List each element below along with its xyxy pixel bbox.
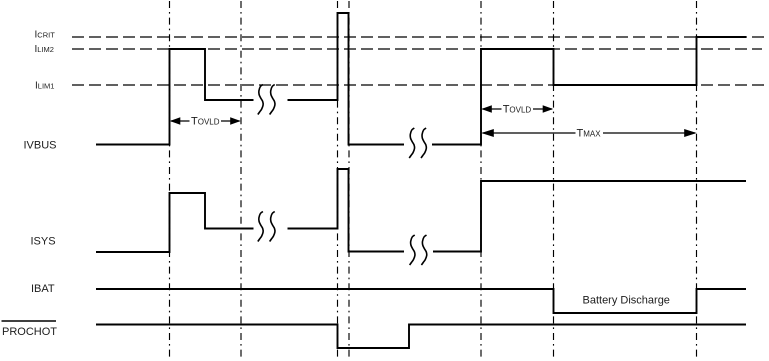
svg-text:TOVLD: TOVLD: [191, 116, 220, 128]
svg-text:IBAT: IBAT: [31, 283, 55, 295]
break squiggle S2 on IVBUS low level: [409, 128, 426, 158]
label PROCHOT with overline: [2, 320, 57, 322]
svg-text:ICRIT: ICRIT: [35, 30, 56, 41]
svg-text:TMAX: TMAX: [577, 128, 602, 140]
waveform PROCHOT: [96, 325, 746, 349]
dimension arrow TOVLD (second, between t5 and t6): [481, 102, 553, 116]
vertical dash-dot timeline t2 (x=241): [240, 1, 242, 360]
break squiggle S4 on ISYS low level: [410, 235, 427, 265]
vertical dash-dot timeline t1 (x=169.5): [169, 1, 171, 360]
waveform IVBUS: [96, 13, 746, 145]
svg-text:Battery Discharge: Battery Discharge: [583, 295, 670, 307]
svg-text:ILIM2: ILIM2: [35, 44, 54, 55]
break squiggle S1 on IVBUS mid level: [258, 85, 275, 115]
svg-text:PROCHOT: PROCHOT: [2, 326, 57, 338]
svg-text:ISYS: ISYS: [31, 236, 56, 248]
vertical dash-dot timeline t5 (x=481): [480, 1, 482, 360]
dashed level line ICRIT (y=37): [72, 36, 765, 38]
break squiggle S3 on ISYS mid level: [258, 212, 275, 242]
waveform ISYS: [96, 169, 746, 252]
dimension arrow TMAX (between t5 and t7): [481, 126, 696, 140]
vertical dash-dot timeline t6 (x=553.5): [553, 1, 555, 360]
svg-text:TOVLD: TOVLD: [503, 104, 532, 116]
dashed level line ILIM1 (y=85): [72, 84, 765, 86]
dashed level line ILIM2 (y=49): [72, 48, 762, 50]
vertical dash-dot timeline t3 (x=337.5): [337, 1, 339, 360]
vertical dash-dot timeline t7 (x=696.5): [696, 1, 698, 360]
dimension arrow TOVLD (first, between t1 and t2): [170, 114, 241, 128]
vertical dash-dot timeline t4 (x=349): [348, 1, 350, 360]
svg-text:ILIM1: ILIM1: [35, 81, 54, 92]
waveform IBAT: [96, 289, 746, 313]
svg-text:IVBUS: IVBUS: [24, 140, 57, 152]
